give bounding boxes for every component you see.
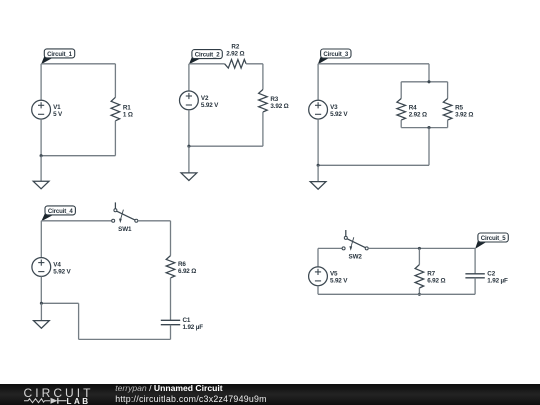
resistor R2	[225, 60, 247, 69]
wire parallel pair top rail (horizontal)	[401, 81, 447, 83]
svg-text:R2: R2	[231, 43, 239, 50]
wire to parallel pair top (vertical)	[428, 64, 430, 82]
wire ground lead circuit 3 (vertical)	[317, 165, 319, 181]
svg-text:5 V: 5 V	[53, 111, 63, 118]
svg-text:V4: V4	[53, 261, 61, 268]
wire R3 bottom lead (vertical)	[262, 112, 264, 146]
wire V4 top lead (vertical)	[40, 221, 42, 258]
wire top-right circuit 2 (horizontal)	[246, 63, 263, 65]
wire V3 bottom lead (vertical)	[317, 119, 319, 165]
CircuitLab logo: resistor-diode glyph and LAB	[24, 397, 94, 405]
label R5 3.92 Ω	[455, 105, 473, 119]
svg-text:R6: R6	[178, 261, 186, 268]
footer url line	[115, 394, 267, 404]
svg-text:3.92 Ω: 3.92 Ω	[270, 103, 288, 110]
resistor R6	[166, 256, 175, 278]
svg-text:V5: V5	[330, 271, 338, 278]
wire V1 top lead (vertical)	[40, 64, 42, 101]
wire junction circuit 2 ground node	[187, 145, 190, 148]
wire R6 top lead (vertical)	[170, 221, 172, 256]
node label Circuit_5 callout	[475, 233, 508, 249]
wire top-right circuit 4 (horizontal)	[138, 220, 171, 222]
svg-text:R3: R3	[270, 96, 278, 103]
wire top circuit 1 (horizontal)	[41, 63, 115, 65]
wire top-left circuit 5 (horizontal)	[318, 247, 342, 249]
svg-text:Circuit_5: Circuit_5	[481, 235, 506, 242]
node label Circuit_1 callout	[41, 49, 75, 64]
wire R1 bottom lead (vertical)	[114, 121, 116, 156]
wire V5 top lead (vertical)	[317, 248, 319, 267]
ground circuit 1	[33, 181, 49, 189]
svg-text:C1: C1	[183, 317, 191, 324]
wire ground lead circuit 1 (vertical)	[40, 156, 42, 182]
wire V2 top lead (vertical)	[188, 64, 190, 91]
wire R7 bottom lead (vertical)	[418, 288, 420, 294]
wire V1 bottom lead (vertical)	[40, 119, 42, 156]
capacitor C1	[161, 320, 180, 324]
svg-text:R4: R4	[409, 105, 417, 112]
svg-text:Circuit_2: Circuit_2	[195, 52, 220, 59]
svg-text:V2: V2	[201, 95, 209, 102]
resistor R1	[111, 97, 120, 121]
ground circuit 4	[34, 321, 50, 329]
wire R5 bottom lead (vertical)	[447, 120, 449, 128]
svg-text:V3: V3	[330, 104, 338, 111]
svg-text:5.92 V: 5.92 V	[330, 111, 348, 118]
wire R4 bottom lead (vertical)	[400, 120, 402, 128]
wire junction parallel bottom node	[427, 126, 430, 129]
svg-text:5.92 V: 5.92 V	[53, 268, 71, 275]
wire ground lead circuit 4 (vertical)	[40, 303, 42, 320]
svg-text:5.92 V: 5.92 V	[330, 278, 348, 285]
wire R4 top lead (vertical)	[400, 82, 402, 99]
wire top circuit 3 (horizontal)	[318, 63, 429, 65]
wire V5 bottom lead (vertical)	[317, 286, 319, 295]
label V4 5.92 V	[53, 261, 71, 275]
resistor R5	[443, 99, 452, 121]
wire V2 bottom lead (vertical)	[188, 110, 190, 146]
voltage source V4	[32, 258, 51, 277]
wire junction circuit 3 ground node	[317, 164, 320, 167]
wire bottom circuit 4 (horizontal)	[79, 338, 171, 340]
switch SW2 (SPDT, open)	[342, 230, 368, 251]
svg-text:6.92 Ω: 6.92 Ω	[427, 278, 445, 285]
svg-text:1 Ω: 1 Ω	[123, 112, 133, 119]
label C2 1.92 µF	[487, 271, 508, 285]
wire V3 top lead (vertical)	[317, 64, 319, 101]
label R4 2.92 Ω	[409, 105, 427, 119]
voltage source V2	[180, 91, 199, 110]
wire top-left circuit 4 (horizontal)	[41, 220, 111, 222]
wire left riser circuit 4 (vertical)	[78, 303, 80, 339]
svg-text:LAB: LAB	[66, 397, 90, 405]
wire bottom circuit 2 (horizontal)	[189, 145, 263, 147]
resistor R7	[415, 265, 424, 288]
wire C2 top lead (vertical)	[474, 248, 476, 273]
label V3 5.92 V	[330, 104, 348, 118]
svg-text:6.92 Ω: 6.92 Ω	[178, 268, 196, 275]
voltage source V1	[32, 100, 51, 119]
wire junction circuit 4 ground node	[40, 302, 43, 305]
wire C2 bottom lead (vertical)	[474, 278, 476, 295]
label R6 6.92 Ω	[178, 261, 196, 275]
CircuitLab logo: CIRCUIT wordmark	[24, 386, 94, 400]
wire R5 top lead (vertical)	[447, 82, 449, 99]
switch SW1 (SPDT, open)	[112, 202, 138, 223]
wire C1 bottom lead (vertical)	[170, 325, 172, 340]
wire R7 top lead (vertical)	[418, 248, 420, 264]
footer author/title line	[115, 383, 222, 393]
svg-text:Circuit_3: Circuit_3	[323, 51, 348, 58]
label R1 1 Ω	[123, 105, 133, 119]
svg-text:R7: R7	[427, 271, 435, 278]
svg-text:Circuit_4: Circuit_4	[48, 208, 73, 215]
wire bottom circuit 1 (horizontal)	[41, 155, 115, 157]
ground circuit 2	[181, 173, 197, 181]
node label Circuit_4 callout	[41, 206, 75, 221]
label R2 2.92 Ω	[226, 43, 244, 57]
svg-text:R5: R5	[455, 105, 463, 112]
svg-text:5.92 V: 5.92 V	[201, 102, 219, 109]
wire ground lead circuit 2 (vertical)	[188, 146, 190, 173]
svg-text:R1: R1	[123, 105, 131, 112]
label R7 6.92 Ω	[427, 271, 445, 285]
footer bar	[0, 384, 540, 405]
svg-text:SW1: SW1	[118, 226, 132, 233]
svg-text:SW2: SW2	[349, 254, 363, 261]
wire R1 top lead (vertical)	[114, 64, 116, 98]
wire top-right circuit 5 (horizontal)	[368, 247, 475, 249]
svg-text:1.92 µF: 1.92 µF	[487, 278, 508, 285]
voltage source V3	[309, 100, 328, 119]
wire to V4 negative node (horizontal)	[41, 302, 78, 304]
svg-text:3.92 Ω: 3.92 Ω	[455, 112, 473, 119]
wire from parallel pair down (vertical)	[428, 128, 430, 166]
ground circuit 3	[310, 182, 326, 190]
wire parallel pair bottom rail (horizontal)	[401, 127, 447, 129]
wire R3 top lead (vertical)	[262, 64, 264, 90]
wire bottom circuit 5 (horizontal)	[318, 293, 475, 295]
capacitor C2	[465, 274, 484, 278]
label V5 5.92 V	[330, 271, 348, 285]
label SW2	[349, 254, 363, 261]
svg-text:Circuit_1: Circuit_1	[47, 51, 72, 58]
label R3 3.92 Ω	[270, 96, 288, 110]
svg-text:1.92 µF: 1.92 µF	[183, 324, 204, 331]
wire R6 to C1 (vertical)	[170, 278, 172, 320]
svg-text:2.92 Ω: 2.92 Ω	[226, 51, 244, 58]
label C1 1.92 µF	[183, 317, 204, 331]
wire junction R7 top node	[418, 247, 421, 250]
label SW1	[118, 226, 132, 233]
node label Circuit_2 callout	[189, 50, 222, 65]
voltage source V5	[309, 267, 328, 286]
svg-text:C2: C2	[487, 271, 495, 278]
label V1 5 V	[53, 104, 63, 118]
wire V4 bottom lead (vertical)	[40, 276, 42, 303]
svg-text:V1: V1	[53, 104, 61, 111]
label V2 5.92 V	[201, 95, 219, 109]
resistor R3	[259, 90, 268, 113]
wire junction circuit 1 ground node	[40, 154, 43, 157]
wire junction parallel top node	[427, 80, 430, 83]
svg-text:2.92 Ω: 2.92 Ω	[409, 112, 427, 119]
resistor R4	[397, 99, 406, 121]
wire bottom circuit 3 (horizontal)	[318, 164, 429, 166]
wire junction R7 bottom node	[418, 293, 421, 296]
wire top-left circuit 2 (horizontal)	[189, 63, 225, 65]
node label Circuit_3 callout	[318, 49, 351, 64]
